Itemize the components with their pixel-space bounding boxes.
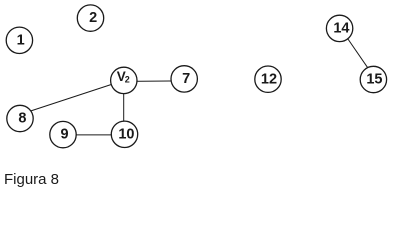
caption Figura 8: [4, 171, 59, 188]
node 12: [255, 66, 281, 92]
node 8: [7, 105, 33, 131]
svg-text:Figura 8: Figura 8: [4, 171, 59, 188]
svg-text:12: 12: [261, 71, 277, 87]
node 2: [77, 5, 103, 31]
node 7: [171, 66, 197, 92]
svg-text:2: 2: [125, 75, 130, 85]
node 10: [111, 121, 137, 147]
svg-text:10: 10: [118, 126, 134, 142]
svg-text:2: 2: [89, 10, 97, 26]
wire edge V2 to 10: [123, 81, 125, 134]
wire edge 8 to V2: [20, 80, 124, 114]
node V2: [111, 67, 137, 93]
wire edge 14 to 15: [340, 28, 370, 71]
wire edge 9 to 10: [63, 134, 125, 136]
svg-text:7: 7: [182, 71, 190, 87]
svg-text:1: 1: [17, 32, 25, 48]
node 15: [360, 66, 386, 92]
svg-text:14: 14: [333, 21, 349, 37]
wire edge V2 to 7: [124, 80, 184, 83]
node 14: [326, 15, 352, 41]
svg-text:9: 9: [60, 127, 68, 143]
node 9: [50, 121, 76, 147]
svg-text:8: 8: [18, 111, 26, 127]
node 1: [6, 27, 32, 53]
svg-text:15: 15: [366, 72, 382, 88]
